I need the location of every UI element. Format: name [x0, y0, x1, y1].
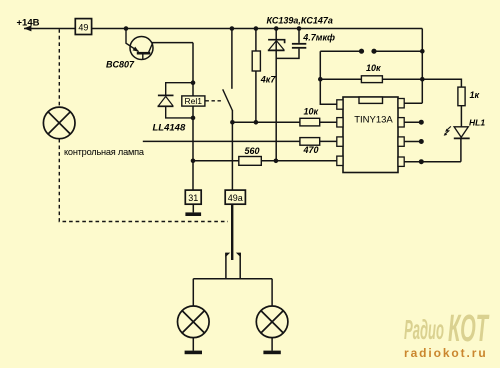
- resistor R 10k (pin2): [300, 106, 320, 126]
- pin 3: [337, 137, 343, 146]
- svg-text:КОТ: КОТ: [448, 308, 489, 350]
- resistor R 1k (LED): [458, 87, 480, 106]
- svg-text:4к7: 4к7: [260, 75, 277, 85]
- wire 10k feedback line to 1k: [320, 79, 461, 87]
- ground below 31: [185, 212, 201, 216]
- node +14V arrow: [24, 25, 32, 31]
- wire pin7 stub: [404, 121, 422, 123]
- terminal 49 box: [75, 19, 91, 35]
- wire dashed relay link: [206, 100, 224, 102]
- pin 6: [398, 137, 404, 146]
- wire pin6 stub: [404, 141, 422, 143]
- wire to lamp 2: [271, 279, 273, 306]
- wire pin4 line: [193, 160, 337, 162]
- svg-text:49: 49: [78, 23, 88, 33]
- svg-text:radiokot.ru: radiokot.ru: [404, 346, 488, 360]
- wire relay/ground vertical line: [192, 43, 194, 191]
- wire pin1 line and loop up: [320, 51, 337, 104]
- resistor R 10k (feedback top): [361, 63, 382, 83]
- svg-text:10к: 10к: [366, 63, 381, 73]
- wire contact line y51 left segment: [320, 50, 361, 52]
- wire 1k to LED anode: [460, 106, 462, 127]
- wire pin8 line: [404, 102, 423, 104]
- resistor R 4k7: [252, 51, 276, 85]
- wire to lamp 1: [192, 279, 194, 306]
- svg-text:470: 470: [303, 145, 319, 155]
- svg-text:BC807: BC807: [106, 60, 135, 70]
- resistor R 560 (pin4): [239, 146, 261, 165]
- svg-text:HL1: HL1: [469, 118, 485, 128]
- wire contact line y51 right segment: [374, 50, 422, 52]
- node dots: [124, 26, 425, 164]
- wire capacitor bottom lead: [276, 49, 299, 59]
- pin 8: [398, 99, 404, 108]
- wire connector socket right: [239, 253, 241, 279]
- pin 2: [337, 118, 343, 127]
- svg-text:контрольная лампа: контрольная лампа: [64, 147, 145, 157]
- lamp EL2: [256, 306, 288, 338]
- connector X1 barbs: [225, 253, 230, 258]
- resistor R 470 (pin3): [300, 138, 320, 155]
- svg-text:LL4148: LL4148: [153, 123, 186, 134]
- LED HL1: [444, 126, 470, 138]
- wire 31 box to ground: [192, 204, 194, 212]
- svg-text:1к: 1к: [470, 90, 480, 100]
- wire 49a to connector pin: [231, 204, 233, 260]
- wire switch lower contact down to 49a: [231, 110, 233, 190]
- logo RadioKOT watermark: [404, 308, 489, 350]
- pin 4: [337, 156, 343, 165]
- wire lamp 1 to ground: [192, 338, 194, 351]
- svg-text:10к: 10к: [304, 106, 319, 116]
- wire capacitor top lead: [298, 29, 300, 43]
- terminal 49a box: [225, 190, 245, 204]
- svg-text:+14В: +14В: [17, 18, 40, 29]
- wire connector socket left: [225, 253, 227, 279]
- relay Rel1 coil box: [182, 96, 205, 106]
- svg-text:TINY13A: TINY13A: [354, 114, 393, 125]
- pin 1: [337, 100, 343, 109]
- wire pin3 line from base: [143, 140, 337, 142]
- wire collector horizontal to relay: [152, 42, 193, 44]
- diode VD LL4148: [158, 83, 194, 118]
- svg-text:Rel1: Rel1: [185, 96, 203, 106]
- svg-text:КС139а,КС147а: КС139а,КС147а: [267, 16, 333, 26]
- op IC U1 TINY13A: [337, 97, 404, 173]
- terminal 31 box: [185, 190, 201, 204]
- svg-text:49а: 49а: [228, 193, 243, 203]
- wire switch upper contact: [231, 29, 233, 89]
- lamp EL1: [178, 306, 210, 338]
- lamp HL control (kontrolnaya lampa): [43, 107, 75, 139]
- transistor Q1 BC807: [126, 29, 153, 61]
- pin 7: [398, 118, 404, 127]
- wire pin2 line: [232, 121, 336, 123]
- wire right vertical bus: [421, 29, 423, 104]
- ground below lamp EL2: [263, 351, 280, 355]
- zener VD KC139a: [268, 40, 285, 51]
- svg-text:560: 560: [245, 146, 260, 156]
- wire lamp split horizontal: [193, 278, 272, 280]
- svg-text:4.7мкф: 4.7мкф: [302, 32, 335, 42]
- svg-text:Радио: Радио: [404, 314, 444, 345]
- wire pin5 line to LED: [404, 161, 461, 163]
- wire dashed control-lamp branch: [59, 29, 228, 221]
- switch S1 blade: [223, 89, 233, 110]
- capacitor C 4.7uF: [292, 44, 306, 48]
- ground below lamp EL1: [185, 351, 202, 355]
- pin 5: [398, 157, 404, 166]
- svg-text:31: 31: [188, 193, 198, 203]
- wire zener branch: [275, 29, 277, 161]
- wire LED cathode down: [460, 139, 462, 162]
- wire top +14V rail: [24, 28, 422, 30]
- wire lamp 2 to ground: [271, 338, 273, 351]
- wire 4k7 branch: [255, 29, 257, 123]
